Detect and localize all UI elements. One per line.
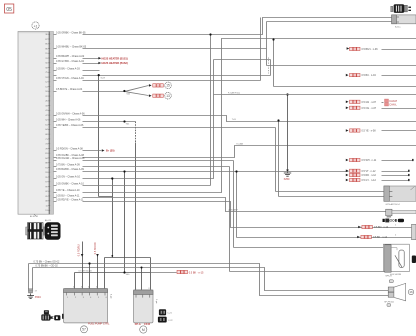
wire W19 pin row 191.8 up to row 38.5 with taps	[54, 39, 416, 193]
wire W22 tap from row 170.8 down to row 237 to right-edge block	[235, 170, 411, 239]
right-edge block (clipped)	[412, 224, 416, 239]
wire W21 pin row 201.3 down to row 227 to right-edge block	[54, 198, 412, 229]
wire W6 pin row 75.1 long run with junction and drop to module M1	[54, 73, 416, 196]
connector cluster right of module M2	[158, 309, 173, 322]
svg-text:0.35 WH – Chass A-06: 0.35 WH – Chass A-06	[56, 119, 81, 122]
connector symbol circle above ECU	[32, 22, 39, 29]
svg-text:0.35 BN – Chass A-03: 0.35 BN – Chass A-03	[56, 68, 80, 71]
svg-text:B+ (30): B+ (30)	[106, 150, 115, 153]
connector icon X11 below ECU	[44, 219, 61, 240]
wire W13 pin row 156.9 to row 145.3	[54, 142, 416, 157]
wire W20 pin row 197.5 down to row 211.5 feeding module M4	[54, 195, 386, 212]
wire W30 module M1 pin2 with red vertical label	[78, 242, 84, 289]
svg-text:0.5 VT · n-12: 0.5 VT · n-12	[362, 170, 377, 173]
svg-text:0.5 RD · n-12: 0.5 RD · n-12	[362, 174, 377, 177]
svg-text:13: 13	[166, 94, 170, 98]
wire W9 pin row 115.3 jog to row 120.8	[54, 112, 416, 121]
module M3 body (right side)	[384, 186, 416, 206]
wire W28 ground run to speaker upper pin	[33, 265, 389, 291]
svg-text:SPK-R: SPK-R	[385, 276, 392, 278]
ECU connector pin strip	[49, 32, 53, 215]
svg-text:M: M	[142, 328, 145, 332]
wire W14 pin row 160 long to red label	[54, 157, 414, 248]
wire W29 module M1 pin1 to module M2 pin4 bus	[75, 270, 205, 288]
wire W31 module M2 pin2 drop	[141, 267, 143, 291]
svg-text:HO2S HEATER (B1S1): HO2S HEATER (B1S1)	[102, 57, 128, 60]
wire W1 pin row 34.3 to top-right module	[54, 18, 392, 35]
svg-text:0.35 GN/BK – Chass A-10: 0.35 GN/BK – Chass A-10	[56, 183, 84, 186]
svg-text:0.35 OG/GN – Chass A-08: 0.35 OG/GN – Chass A-08	[56, 157, 85, 160]
module M1 pin stubs and numbers	[66, 287, 107, 299]
svg-text:0.35 BK/WH – Chass A-02: 0.35 BK/WH – Chass A-02	[56, 55, 85, 58]
module M2 pin stubs	[135, 288, 157, 305]
sheet tag 05	[5, 4, 14, 13]
wire W4 pin row 63 ending at red label	[54, 60, 128, 65]
svg-text:0.35 BU/RD – Chass A-09: 0.35 BU/RD – Chass A-09	[56, 168, 84, 171]
wire W7 pin row 79.8 up to row 55.5	[54, 18, 261, 81]
svg-text:0.5 BK · n-14: 0.5 BK · n-14	[373, 236, 388, 239]
svg-text:0.75 BN – Chass A-09: 0.75 BN – Chass A-09	[56, 163, 80, 166]
wire W19a tap row 101.8 red label	[346, 99, 398, 107]
svg-text:0.5 BK · n-15: 0.5 BK · n-15	[189, 271, 204, 274]
module M1 body	[64, 289, 108, 323]
svg-text:A1-X3: A1-X3	[45, 219, 52, 222]
wire W15 pin row 166.4 to ground G2	[54, 93, 385, 271]
wire W3 pin row 58.2 ending at red label	[54, 55, 128, 60]
inline connector on ground drop	[28, 289, 38, 293]
wire W12 pin row 150.5 ending at red label	[54, 148, 115, 153]
svg-text:CAN-H: CAN-H	[389, 100, 397, 103]
ECU connector block A1 body	[18, 32, 49, 215]
wire W16 pin row 170.8 to red label row	[54, 168, 410, 273]
module M1 circled designator	[81, 326, 88, 333]
wire W18b row 86.5 from tap on row 39.5	[272, 38, 416, 86]
wire W2 pin row 48.5 with branch to module and right runs	[54, 22, 416, 66]
wire W33 module M1 pin3 from ground bus	[88, 262, 90, 288]
svg-text:+1: +1	[34, 24, 38, 28]
ground G2	[284, 170, 292, 182]
module M2 body	[134, 290, 154, 323]
svg-text:FP-A: FP-A	[135, 323, 141, 326]
horn box component	[383, 244, 416, 276]
connector icon X10 below ECU	[26, 223, 43, 239]
svg-text:B-11a: B-11a	[395, 26, 401, 28]
svg-text:0.35 GR/BK – Chass BK-05: 0.35 GR/BK – Chass BK-05	[56, 31, 86, 34]
svg-text:0.5 RD/BU: 0.5 RD/BU	[78, 244, 81, 256]
svg-text:0.5 WH · n-11: 0.5 WH · n-11	[362, 159, 377, 162]
connector cluster left of module M1	[41, 310, 60, 320]
svg-text:GPS-ANT B-14: GPS-ANT B-14	[386, 203, 401, 206]
svg-text:0.35 GY/RD – Chass A-02: 0.35 GY/RD – Chass A-02	[56, 60, 85, 63]
svg-text:05: 05	[6, 7, 12, 13]
svg-text:HO2S HEATER (B1S2): HO2S HEATER (B1S2)	[102, 62, 128, 65]
wire W5 short pin row 70.5	[54, 68, 100, 71]
svg-text:A1 ECM: A1 ECM	[30, 215, 38, 218]
wire W17 pin row 178.5 up to row 94.5 and drop to module M1	[54, 60, 416, 290]
ground G1	[27, 294, 41, 300]
svg-text:15: 15	[166, 84, 170, 88]
svg-text:0.5 BR GD-03: 0.5 BR GD-03	[79, 270, 93, 272]
svg-text:CAN-L: CAN-L	[389, 104, 397, 107]
antenna adapter chain	[383, 219, 405, 223]
top-right module (body clipped at right edge)	[392, 15, 416, 29]
wire W34 module M1 pin4 with red vertical label	[94, 242, 99, 288]
module M4 antenna element	[386, 209, 416, 217]
svg-text:X504: X504	[35, 296, 41, 299]
speaker icon	[384, 276, 413, 307]
svg-text:FP-B: FP-B	[144, 323, 150, 326]
wire W19b tap row 107.8 red label	[346, 106, 416, 110]
svg-text:0.35 YE/BK – Chass A-06: 0.35 YE/BK – Chass A-06	[56, 124, 84, 127]
svg-text:0.35 WH/BU – Chass BK-05: 0.35 WH/BU – Chass BK-05	[56, 46, 87, 49]
wire W8 pin row 91 branching to two circled terminals	[54, 82, 172, 99]
svg-text:57: 57	[82, 328, 86, 332]
top-right connector icon	[391, 4, 411, 13]
svg-text:0.35 GN – Chass A-10: 0.35 GN – Chass A-10	[56, 176, 81, 179]
wire W23 tap from row 94.5 down to red row 175	[346, 173, 410, 177]
svg-text:FUEL PUMP CTRL: FUEL PUMP CTRL	[88, 323, 110, 326]
svg-text:0.5 GY · n-12: 0.5 GY · n-12	[362, 179, 377, 182]
wire W18 pin row 185.5 up to row 86.5	[54, 33, 212, 185]
svg-text:0.5 BK/1 · n-06: 0.5 BK/1 · n-06	[362, 48, 379, 51]
svg-text:F-CAN H (C): F-CAN H (C)	[228, 92, 240, 95]
svg-text:0.5 OG · n-07: 0.5 OG · n-07	[362, 107, 377, 110]
wire W10 pin row 121.5 with long vertical drop	[54, 119, 136, 291]
svg-text:SP-FR 4Ω: SP-FR 4Ω	[384, 301, 394, 303]
wire W25 tap from row 160 to module M3 pin 2	[277, 119, 384, 196]
svg-text:0.5 RD/GN – Chass A-08: 0.5 RD/GN – Chass A-08	[56, 148, 83, 151]
wire W19c tap row 130.3 red label	[346, 129, 416, 133]
svg-text:X250: X250	[284, 178, 290, 181]
svg-text:0.5 BK/RD: 0.5 BK/RD	[94, 242, 97, 254]
svg-text:0.35 RD/YE – Chass A-11: 0.35 RD/YE – Chass A-11	[56, 198, 84, 201]
module M1 labels	[62, 294, 111, 326]
wire W11 pin row 127 to red row 180 and tap to module M2	[54, 124, 410, 192]
svg-text:0.75 BN – Chass GD-02: 0.75 BN – Chass GD-02	[34, 261, 60, 264]
wire W27 ground run to speaker lower pin	[29, 261, 389, 296]
svg-text:0.5 YE · n-08: 0.5 YE · n-08	[362, 130, 377, 133]
note below ECU	[30, 214, 38, 218]
svg-text:0.5 GN · n-07: 0.5 GN · n-07	[362, 101, 377, 104]
svg-text:0.75 BN/BK – GD-02: 0.75 BN/BK – GD-02	[36, 265, 59, 268]
module M2 labels	[135, 323, 150, 333]
svg-text:K-CAN: K-CAN	[237, 142, 244, 145]
svg-text:0.35 BU – Chass A-11: 0.35 BU – Chass A-11	[56, 195, 80, 198]
svg-text:0.5 BU · n-04: 0.5 BU · n-04	[362, 74, 377, 77]
svg-text:16: 16	[409, 290, 413, 294]
shield dash marker	[268, 58, 270, 74]
ECU pin ticks and pin numbers	[45, 34, 50, 212]
svg-text:0.35 YE – Chass A-10: 0.35 YE – Chass A-10	[56, 189, 80, 192]
svg-text:0.35 GN/WH – Chass A-06: 0.35 GN/WH – Chass A-06	[56, 112, 85, 115]
svg-text:0.5 BN · n-14: 0.5 BN · n-14	[374, 226, 389, 229]
svg-text:0.5 BN/YE – Chass A-04: 0.5 BN/YE – Chass A-04	[56, 88, 83, 91]
svg-text:0.35 VT/GN – Chass A-04: 0.35 VT/GN – Chass A-04	[56, 77, 84, 80]
